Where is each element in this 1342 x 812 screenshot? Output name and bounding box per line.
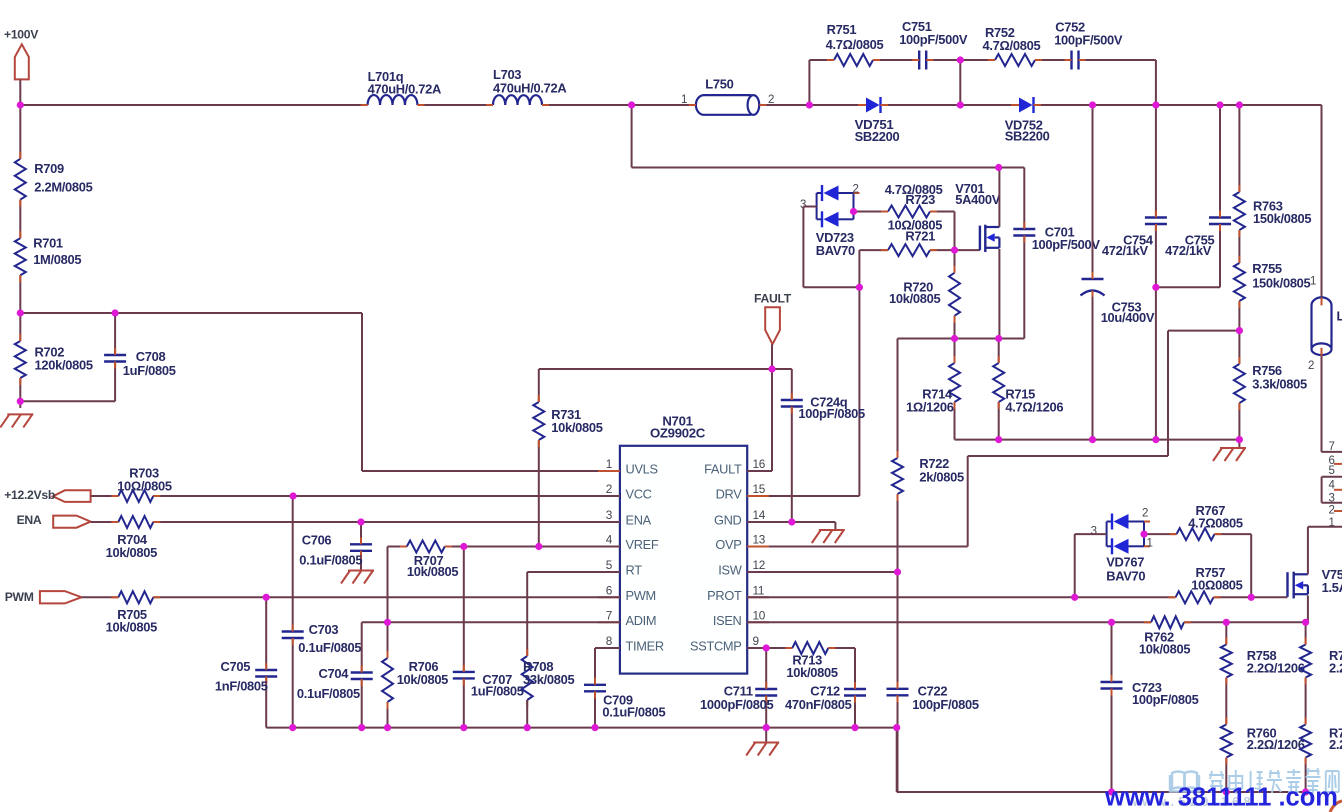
wire snubber tap middle [959,60,961,105]
svg-text:ADIM: ADIM [626,613,657,628]
ground right divider [1220,447,1246,449]
svg-text:100pF/500V: 100pF/500V [1054,32,1123,47]
wire snubber tap left [808,60,810,105]
wire GND pin net [747,522,835,530]
svg-text:R701: R701 [33,236,63,251]
svg-text:7: 7 [1329,441,1335,453]
svg-text:R709: R709 [34,161,64,176]
svg-text:1: 1 [681,94,687,106]
inductor L703 [486,67,566,105]
flag +12.2Vsb [4,488,90,502]
resistor R757 [1169,565,1243,603]
junction [763,724,770,731]
junction [995,164,1002,171]
pin 2 VCC [598,482,652,502]
svg-text:C706: C706 [302,533,332,548]
ground C706 [348,570,374,572]
wire R763 R755 R756 column [1238,105,1240,448]
junction [17,398,24,405]
capacitor C753 electrolytic [1081,272,1155,325]
junction [1236,101,1243,108]
wire R758 R760 column [1225,622,1227,792]
resistor R708 [522,649,575,707]
svg-text:10k/0805: 10k/0805 [551,420,602,435]
svg-text:10k/0805: 10k/0805 [106,620,157,635]
wire VD723 pin3 [803,207,859,288]
svg-text:1uF/0805: 1uF/0805 [123,363,176,378]
svg-text:R721: R721 [905,228,935,243]
wire VREF net [388,546,620,548]
svg-text:C708: C708 [136,349,166,364]
svg-text:1uF/0805: 1uF/0805 [471,684,524,699]
wire bottom rail right [955,439,1240,441]
junction [1302,788,1309,795]
junction [358,724,365,731]
svg-text:2: 2 [1308,360,1314,372]
svg-text:12: 12 [753,558,766,572]
svg-text:UVLS: UVLS [626,462,658,477]
svg-text:2: 2 [853,183,859,195]
diode VD723 [800,183,860,258]
pin 3 ENA [598,508,652,528]
flag FAULT [754,291,792,369]
resistor R703 [111,465,172,502]
svg-text:10k/0805: 10k/0805 [786,665,837,680]
svg-text:PWM: PWM [626,588,656,603]
junction [1089,436,1096,443]
junction [290,492,297,499]
junction [995,436,1002,443]
resistor R760 [1221,718,1305,765]
wire gate V701 [955,249,980,251]
capacitor C708 [104,348,176,378]
wire R715 column [998,339,1000,440]
svg-text:100pF/0805: 100pF/0805 [798,406,865,421]
junction [289,724,296,731]
svg-text:4.7Ω/0805: 4.7Ω/0805 [983,38,1041,53]
svg-text:C705: C705 [221,659,251,674]
svg-text:472/1kV: 472/1kV [1165,243,1212,258]
junction [1152,436,1159,443]
svg-text:16: 16 [753,457,766,471]
svg-text:PROT: PROT [707,588,742,603]
pin 1 UVLS [598,457,658,477]
wire ADIM net [362,621,620,623]
ground bottom rail [753,742,779,744]
svg-text:TIMER: TIMER [626,639,664,654]
svg-text:L750: L750 [705,76,733,91]
svg-text:SSTCMP: SSTCMP [690,639,742,654]
junction [995,335,1002,342]
wire V75x drain [1308,527,1342,575]
svg-text:1.5A: 1.5A [1322,580,1342,595]
wire C703 branch [292,496,294,728]
svg-text:1Ω/1206: 1Ω/1206 [906,400,954,415]
wire R723 net [854,212,955,251]
wire SSTCMP net [747,648,855,728]
svg-text:10: 10 [753,608,766,622]
wire lower ground rail [897,728,1306,792]
resistor R762 [1139,616,1191,656]
junction [17,101,24,108]
wire divider tap [20,312,362,314]
svg-text:10k/0805: 10k/0805 [407,564,458,579]
pin 12 ISW [718,558,769,578]
connector output partial [1322,441,1342,529]
junction [17,309,24,316]
junction [1140,531,1147,538]
capacitor C754 [1102,211,1167,259]
resistor R723 [881,182,943,217]
wire C723 branch [1111,622,1113,792]
svg-text:13: 13 [753,533,766,547]
resistor R713 [785,642,838,680]
pin 11 PROT [707,583,769,603]
wire R714 column [954,339,956,440]
power flag +100V [4,27,39,105]
junction [894,568,901,575]
junction [856,284,863,291]
junction [957,101,964,108]
svg-text:R756: R756 [1252,363,1282,378]
pin 10 ISEN [713,608,769,628]
main +100V rail wire [20,104,1321,106]
wire R722 column [897,339,899,793]
svg-text:150k/0805: 150k/0805 [1252,275,1310,290]
resistor R706 [382,651,448,709]
svg-text:VCC: VCC [626,487,652,502]
wire right sense column [1305,622,1307,792]
resistor R763 [1234,185,1311,237]
pin 5 RT [598,558,642,578]
capacitor C724q [781,393,865,421]
resistor R715 [993,356,1063,415]
capacitor C701 [1013,222,1100,252]
junction [591,724,598,731]
svg-text:ENA: ENA [626,513,652,528]
capacitor C706 [299,533,372,568]
wire C701 branch [1023,168,1025,339]
svg-text:BAV70: BAV70 [1106,568,1145,583]
junction [1152,101,1159,108]
junction [806,101,813,108]
resistor R707 [400,541,459,580]
wire R706 column [387,622,389,727]
svg-text:5: 5 [1329,465,1335,477]
svg-text:DRV: DRV [716,487,743,502]
junction [460,724,467,731]
resistor R758 [1221,638,1305,685]
wire C755 column [1156,105,1220,287]
svg-text:5: 5 [606,558,613,572]
svg-text:100pF/0805: 100pF/0805 [1132,692,1199,707]
junction [112,309,119,316]
wire ENA net [91,521,620,523]
svg-text:10Ω0805: 10Ω0805 [1191,578,1242,593]
resistor R721 [881,218,942,257]
pin 4 VREF [598,533,659,553]
junction [768,365,775,372]
svg-text:100pF/0805: 100pF/0805 [912,697,979,712]
wire C704 branch [361,622,363,727]
junction [850,208,857,215]
svg-text:4: 4 [606,533,613,547]
svg-text:2k/0805: 2k/0805 [919,470,964,485]
svg-text:10k/0805: 10k/0805 [397,672,448,687]
wire snubber top path [809,59,1156,61]
flag PWM [5,590,82,604]
svg-text:10u/400V: 10u/400V [1101,310,1155,325]
svg-text:R723: R723 [905,192,935,207]
pin 16 FAULT [704,457,769,477]
junction [957,56,964,63]
junction [384,724,391,731]
ground IC GND [819,529,845,531]
pin 6 PWM [598,583,656,603]
wire R731 column [538,369,540,547]
svg-text:470nF/0805: 470nF/0805 [785,697,852,712]
resistor R720 [889,266,960,323]
transistor V75x [1288,567,1342,599]
svg-text:BAV70: BAV70 [816,243,855,258]
svg-text:FAULT: FAULT [704,462,742,477]
svg-text:C703: C703 [309,622,339,637]
junction [1071,594,1078,601]
wire VCC net [91,495,620,497]
svg-text:3: 3 [1091,525,1097,537]
svg-text:OZ9902C: OZ9902C [650,426,706,441]
wire C707 branch [463,547,465,728]
svg-text:10k/0805: 10k/0805 [889,291,940,306]
junction [763,644,770,651]
wire C706 branch [360,522,362,571]
capacitor C712 [785,682,866,712]
svg-text:11: 11 [753,583,765,597]
svg-text:3.3k/0805: 3.3k/0805 [1252,377,1307,392]
wire output inductor column [1322,105,1342,452]
svg-text:150k/0805: 150k/0805 [1253,211,1311,226]
svg-text:R751: R751 [827,22,857,37]
resistor R704 [106,516,161,560]
svg-text:472/1kV: 472/1kV [1102,243,1149,258]
junction [1108,788,1115,795]
pin 15 DRV [716,482,769,502]
svg-text:www. 3811111 .com: www. 3811111 .com [1104,784,1338,812]
capacitor C755 [1165,211,1231,259]
junction [893,724,900,731]
svg-text:R755: R755 [1252,261,1282,276]
svg-text:2.2Ω/1206: 2.2Ω/1206 [1247,661,1305,676]
junction [460,543,467,550]
svg-text:+12.2Vsb: +12.2Vsb [4,488,55,502]
resistor R752 [983,25,1043,66]
svg-text:1M/0805: 1M/0805 [33,252,81,267]
junction [1089,101,1096,108]
svg-text:0.1uF/0805: 0.1uF/0805 [602,705,665,720]
resistor R709 [15,152,93,207]
wire V701 source [998,249,1000,339]
junction [1236,327,1243,334]
svg-text:L7: L7 [1337,308,1342,323]
capacitor C705 [215,659,277,694]
junction [851,724,858,731]
wire ISEN net [747,621,1305,623]
svg-text:2.2M/0805: 2.2M/0805 [34,179,92,194]
capacitor C711 [700,682,777,712]
resistor R714 [906,356,960,415]
svg-text:1000pF/0805: 1000pF/0805 [700,697,774,712]
junction [1302,619,1309,626]
svg-text:1: 1 [1310,275,1316,287]
capacitor C704 [297,666,373,702]
svg-text:RT: RT [626,563,643,578]
svg-text:14: 14 [753,508,766,522]
svg-text:4: 4 [1329,480,1336,492]
svg-text:VREF: VREF [626,537,659,552]
svg-text:SB2200: SB2200 [1005,129,1050,144]
pin 9 SSTCMP [690,634,769,654]
wire TIMER net [595,648,620,728]
svg-text:10Ω/0805: 10Ω/0805 [117,478,172,493]
wire R767 net [1144,534,1251,597]
svg-text:ISEN: ISEN [713,613,742,628]
wire PWM net [82,596,620,598]
pin 7 ADIM [598,608,656,628]
svg-text:2: 2 [1142,507,1148,519]
svg-text:470uH/0.72A: 470uH/0.72A [493,81,566,96]
svg-text:6: 6 [606,583,613,597]
wire FAULT net [539,369,792,471]
svg-text:4.7Ω/1206: 4.7Ω/1206 [1005,400,1063,415]
junction [788,518,795,525]
resistor R701 [15,231,82,282]
junction [1248,594,1255,601]
capacitor C723 [1101,675,1199,707]
capacitor C709 [584,678,665,720]
junction [524,724,531,731]
inductor L750 [681,76,774,114]
resistor R731 [533,395,602,447]
svg-text:0.1uF/0805: 0.1uF/0805 [297,686,360,701]
svg-text:3: 3 [1329,493,1335,505]
resistor R767 [1170,503,1243,540]
svg-text:10k/0805: 10k/0805 [1139,641,1190,656]
svg-text:1nF/0805: 1nF/0805 [215,679,268,694]
watermark book icon [1170,772,1199,792]
svg-text:8: 8 [606,634,613,648]
wire PROT net [747,596,1074,598]
capacitor C707 [453,665,524,699]
capacitor C751 [899,19,968,70]
svg-text:470uH/0.72A: 470uH/0.72A [368,82,441,97]
wire OVP sense link [747,331,1239,547]
junction [951,335,958,342]
svg-text:PWM: PWM [5,590,34,604]
svg-text:OVP: OVP [715,537,741,552]
wire V701 drain [998,168,1000,228]
svg-text:+100V: +100V [4,27,39,41]
junction [1152,284,1159,291]
watermark chinese characters [1209,768,1339,794]
junction [951,247,958,254]
wire C724q branch [791,369,793,522]
diode VD767 [1091,507,1153,583]
svg-text:C704: C704 [319,666,350,681]
junction [1108,619,1115,626]
svg-text:7: 7 [606,608,612,622]
junction [1236,436,1243,443]
svg-text:SB2200: SB2200 [855,129,900,144]
junction [357,518,364,525]
wire UVLS net [362,313,620,471]
wire VD767 pin3 [1075,534,1107,597]
svg-text:15: 15 [753,482,766,496]
pin 14 GND [714,508,769,528]
junction [1216,101,1223,108]
wire drain rail [632,105,1025,168]
svg-text:100pF/500V: 100pF/500V [1032,237,1101,252]
junction [1223,619,1230,626]
svg-text:33k/0805: 33k/0805 [523,672,574,687]
svg-text:10k/0805: 10k/0805 [106,545,157,560]
svg-text:2.2: 2.2 [1329,661,1342,676]
svg-text:1: 1 [606,457,612,471]
svg-text:100pF/500V: 100pF/500V [899,32,968,47]
svg-text:FAULT: FAULT [754,291,792,305]
flag ENA [17,513,91,528]
svg-text:2.2: 2.2 [1329,737,1342,752]
svg-text:ENA: ENA [17,513,42,527]
resistor R759 partial [1300,638,1342,685]
resistor R761 partial [1300,718,1342,765]
svg-text:ISW: ISW [718,563,742,578]
junction [535,543,542,550]
resistor R755 [1234,256,1311,308]
resistor R705 [106,591,161,634]
capacitor C722 [887,682,979,712]
resistor R722 [892,451,964,501]
wire C753 column [1092,105,1094,440]
svg-text:2: 2 [1329,505,1335,517]
svg-text:1: 1 [1147,537,1153,549]
junction [628,101,635,108]
svg-text:0.1uF/0805: 0.1uF/0805 [298,640,361,655]
wire mid rail R714 R715 [898,338,1025,340]
capacitor C752 [1054,20,1123,70]
wire V75x source [1307,596,1309,623]
watermark red arc corner [1330,801,1342,812]
pin 8 TIMER [598,634,664,654]
svg-text:5A400V: 5A400V [955,192,1000,207]
junction [384,619,391,626]
transistor V701 [955,181,1000,252]
svg-text:0.1uF/0805: 0.1uF/0805 [299,553,362,568]
wire C711 branch [765,648,767,743]
resistor R751 [826,22,884,66]
svg-text:4.7Ω0805: 4.7Ω0805 [1188,516,1243,531]
svg-text:9: 9 [753,634,759,648]
wire DRV net [747,287,859,496]
junction [1223,788,1230,795]
resistor R702 [15,334,93,385]
svg-text:GND: GND [714,513,742,528]
diode VD752 [1005,97,1050,144]
diode VD751 [855,97,900,144]
wire C705 branch [265,597,267,727]
IC N701 box [620,414,747,674]
svg-text:2: 2 [768,94,774,106]
inductor L7xx output [1308,275,1342,372]
